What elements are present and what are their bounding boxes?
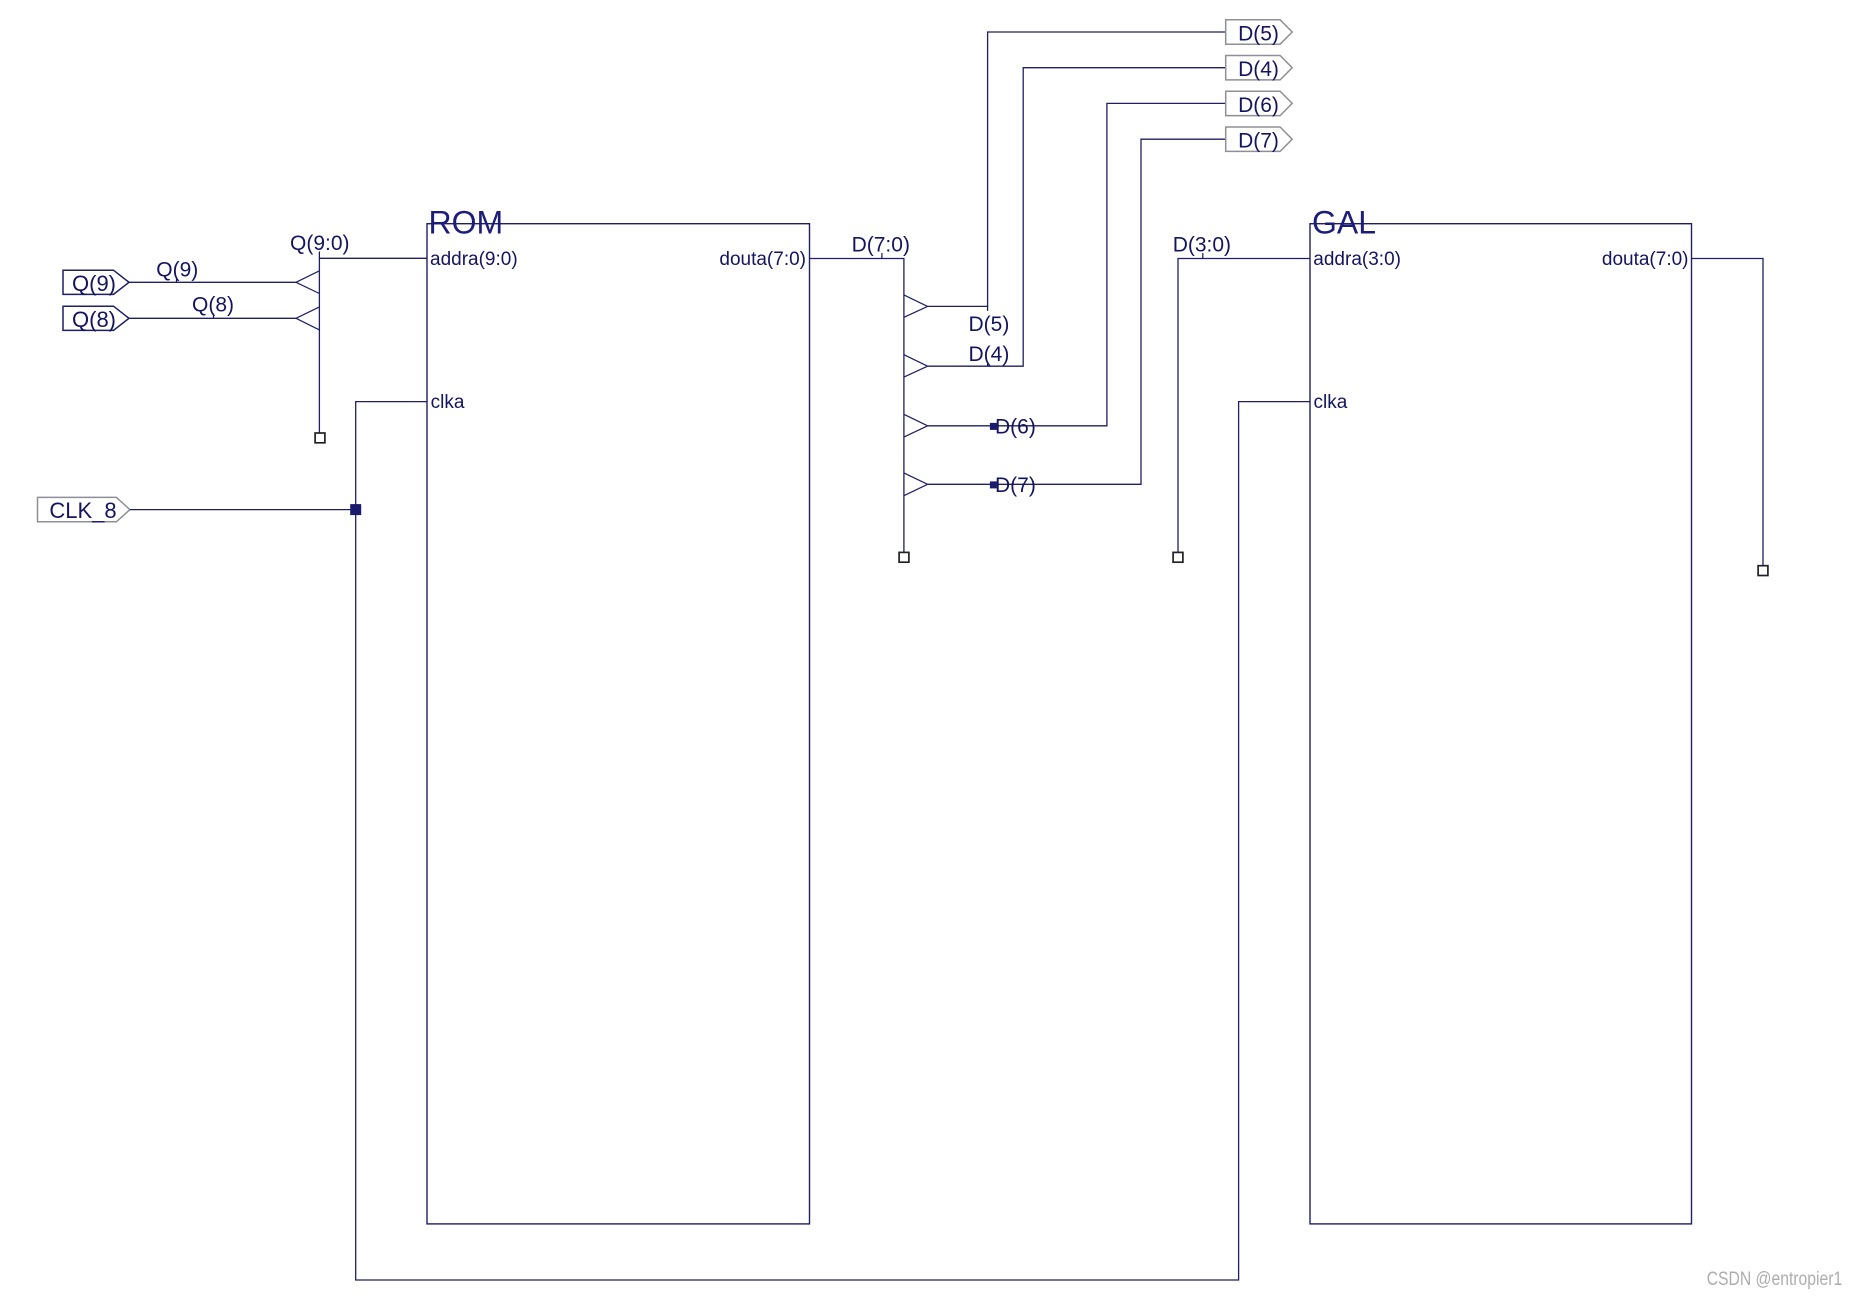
wire CLK_8 to junction bbox=[130, 509, 356, 511]
net D(3:0) wire to GAL addra bbox=[1178, 259, 1310, 558]
dangling-net marker Q(9:0) bbox=[315, 433, 325, 443]
wire Q(8) to bus tap bbox=[129, 317, 296, 319]
bus tap D(7) bbox=[904, 473, 928, 496]
svg-text:clka: clka bbox=[1314, 392, 1348, 413]
svg-text:D(6): D(6) bbox=[1238, 94, 1279, 117]
net label D(3:0) bbox=[1173, 234, 1231, 259]
net label attach marker D(6) bbox=[990, 423, 997, 430]
bus tap D(5) bbox=[904, 295, 928, 317]
output port D(7) bbox=[1226, 127, 1293, 153]
svg-text:ROM: ROM bbox=[429, 205, 504, 241]
wire GAL douta dangling bbox=[1692, 259, 1764, 571]
net label Q(9) bbox=[156, 258, 198, 282]
svg-text:D(3:0): D(3:0) bbox=[1173, 234, 1231, 257]
wire D(7) tap to port bbox=[928, 139, 1226, 484]
net label attach marker D(7) bbox=[990, 481, 997, 488]
net label Q(9:0) bbox=[290, 232, 350, 258]
svg-text:D(6): D(6) bbox=[995, 416, 1036, 439]
block U1 ROM bbox=[427, 224, 810, 1224]
svg-text:addra(3:0): addra(3:0) bbox=[1313, 249, 1401, 270]
svg-text:CSDN @entropier1: CSDN @entropier1 bbox=[1707, 1268, 1843, 1290]
svg-text:clka: clka bbox=[431, 392, 465, 413]
output port D(4) bbox=[1226, 56, 1293, 82]
input port Q(8) bbox=[63, 306, 129, 332]
svg-text:D(5): D(5) bbox=[1238, 23, 1279, 46]
bus Q(9:0) to ROM addra bbox=[319, 258, 427, 438]
bus tap D(4) bbox=[904, 355, 928, 377]
output port D(6) bbox=[1226, 91, 1293, 117]
svg-text:CLK_8: CLK_8 bbox=[49, 498, 116, 523]
junction CLK_8 / clka bbox=[350, 504, 361, 515]
bus D(7:0) from ROM douta bbox=[809, 259, 904, 558]
svg-text:GAL: GAL bbox=[1312, 205, 1376, 241]
bus tap Q(8) bbox=[296, 307, 319, 330]
svg-text:Q(9): Q(9) bbox=[72, 271, 116, 296]
svg-text:Q(8): Q(8) bbox=[192, 294, 234, 317]
net label D(7:0) bbox=[852, 234, 910, 259]
svg-text:douta(7:0): douta(7:0) bbox=[719, 249, 806, 270]
wire Q(9) to bus tap bbox=[129, 281, 296, 283]
wire D(6) tap to port bbox=[928, 103, 1226, 425]
dangling-net marker GAL douta bbox=[1758, 566, 1768, 576]
dangling-net marker D(3:0) bbox=[1173, 552, 1183, 562]
dangling-net marker D(7:0) bbox=[899, 552, 909, 562]
wire D(5) tap to port bbox=[928, 32, 1226, 306]
bus tap Q(9) bbox=[296, 271, 319, 294]
svg-text:addra(9:0): addra(9:0) bbox=[430, 249, 518, 270]
input port Q(9) bbox=[63, 270, 129, 296]
output port D(5) bbox=[1226, 20, 1293, 46]
svg-text:douta(7:0): douta(7:0) bbox=[1602, 249, 1689, 270]
bus tap D(6) bbox=[904, 414, 928, 437]
input port CLK_8 bbox=[38, 497, 130, 523]
wire clka net: ROM clka down, bottom rail, up to GAL clka bbox=[356, 402, 1310, 1280]
net label Q(8) bbox=[192, 294, 234, 319]
svg-text:D(7): D(7) bbox=[995, 474, 1036, 497]
svg-text:Q(8): Q(8) bbox=[72, 307, 116, 332]
svg-text:D(7:0): D(7:0) bbox=[852, 234, 910, 257]
wire D(4) tap to port bbox=[928, 68, 1226, 367]
svg-text:Q(9): Q(9) bbox=[156, 258, 198, 281]
svg-text:D(4): D(4) bbox=[969, 343, 1010, 366]
net label D(5) bbox=[969, 306, 1010, 336]
block U2 GAL bbox=[1310, 224, 1692, 1224]
svg-text:D(5): D(5) bbox=[969, 313, 1010, 336]
svg-text:D(4): D(4) bbox=[1238, 58, 1279, 81]
svg-text:D(7): D(7) bbox=[1238, 130, 1279, 153]
net label D(4) bbox=[969, 343, 1010, 366]
